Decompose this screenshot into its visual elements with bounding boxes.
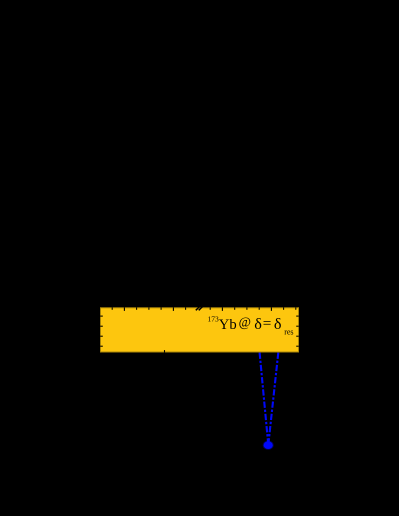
top axis minor ticks xyxy=(112,307,296,310)
dashed guide line left xyxy=(260,353,269,445)
svg-text:Yb: Yb xyxy=(219,317,237,333)
data point marker halo xyxy=(263,441,274,450)
left axis ticks xyxy=(100,316,103,346)
svg-text:res: res xyxy=(284,327,293,336)
svg-text:=: = xyxy=(263,315,272,332)
axes spine frame xyxy=(101,308,299,352)
right axis ticks xyxy=(296,316,299,346)
data point marker xyxy=(264,441,273,449)
axis break mark xyxy=(196,306,204,311)
bottom axis tick xyxy=(164,350,166,352)
svg-text:δ: δ xyxy=(254,315,262,333)
svg-text:@: @ xyxy=(239,314,251,329)
svg-text:173: 173 xyxy=(208,315,220,324)
dashed guide line right xyxy=(268,353,278,445)
svg-text:δ: δ xyxy=(274,315,282,333)
shaded band (yellow region) xyxy=(100,307,299,352)
top axis major ticks xyxy=(124,307,271,311)
